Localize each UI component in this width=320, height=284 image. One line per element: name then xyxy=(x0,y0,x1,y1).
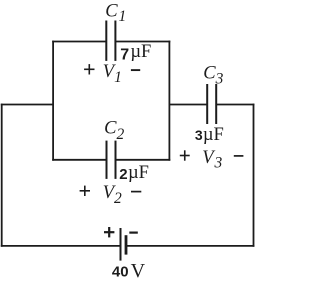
svg-text:µF: µF xyxy=(203,125,224,145)
svg-text:V: V xyxy=(131,260,146,282)
capacitor C3 plates xyxy=(207,84,216,124)
svg-text:C1: C1 xyxy=(105,2,126,25)
svg-text:V1: V1 xyxy=(103,62,122,86)
wire: middle right segment a xyxy=(169,104,207,106)
svg-text:40: 40 xyxy=(112,263,129,280)
node V2 minus xyxy=(131,191,141,193)
svg-text:C3: C3 xyxy=(203,63,223,87)
svg-text:2: 2 xyxy=(119,166,127,183)
node V1 minus xyxy=(131,69,140,71)
node V3 plus xyxy=(180,150,190,160)
svg-text:V2: V2 xyxy=(103,183,122,207)
wire: inner bottom-right segment xyxy=(116,159,171,161)
wire: outer right rail xyxy=(253,104,255,247)
wire: inner left rail xyxy=(52,41,54,161)
svg-text:V3: V3 xyxy=(202,148,222,172)
node V2 plus xyxy=(80,186,90,196)
wire: bottom-left segment xyxy=(1,245,121,247)
node V3 minus xyxy=(234,155,244,157)
wire: middle right segment b xyxy=(216,104,254,106)
svg-text:µF: µF xyxy=(128,163,149,183)
wire: inner top-left segment xyxy=(52,41,106,43)
battery 40V plates xyxy=(121,228,127,261)
svg-text:3: 3 xyxy=(195,127,203,143)
wire: outer left rail xyxy=(1,104,3,247)
capacitor C1 plates xyxy=(106,21,115,61)
battery minus sign xyxy=(129,232,138,234)
wire: inner top-right segment xyxy=(115,41,170,43)
svg-text:7: 7 xyxy=(120,46,129,63)
wire: middle left segment xyxy=(1,104,53,106)
svg-text:µF: µF xyxy=(130,42,151,62)
battery plus sign xyxy=(104,227,114,237)
node V1 plus xyxy=(84,64,94,74)
wire: inner bottom-left segment xyxy=(52,159,106,161)
svg-text:C2: C2 xyxy=(104,119,124,144)
capacitor C2 plates xyxy=(107,141,116,179)
wire: bottom-right segment xyxy=(126,245,254,247)
wire: inner right rail xyxy=(168,41,170,161)
